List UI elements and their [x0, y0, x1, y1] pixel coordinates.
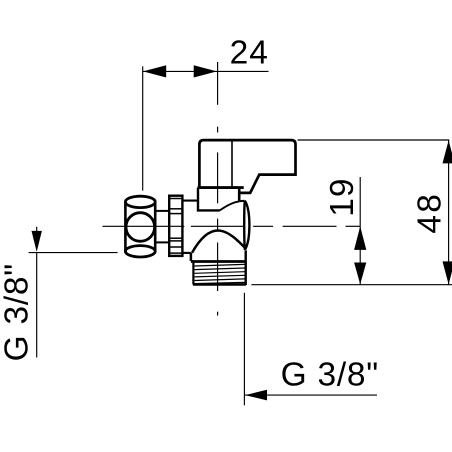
svg-text:19: 19	[324, 178, 361, 217]
svg-text:24: 24	[230, 35, 269, 72]
svg-text:G 3/8": G 3/8"	[281, 357, 379, 394]
svg-text:48: 48	[411, 192, 448, 234]
svg-text:G 3/8": G 3/8"	[0, 263, 36, 361]
